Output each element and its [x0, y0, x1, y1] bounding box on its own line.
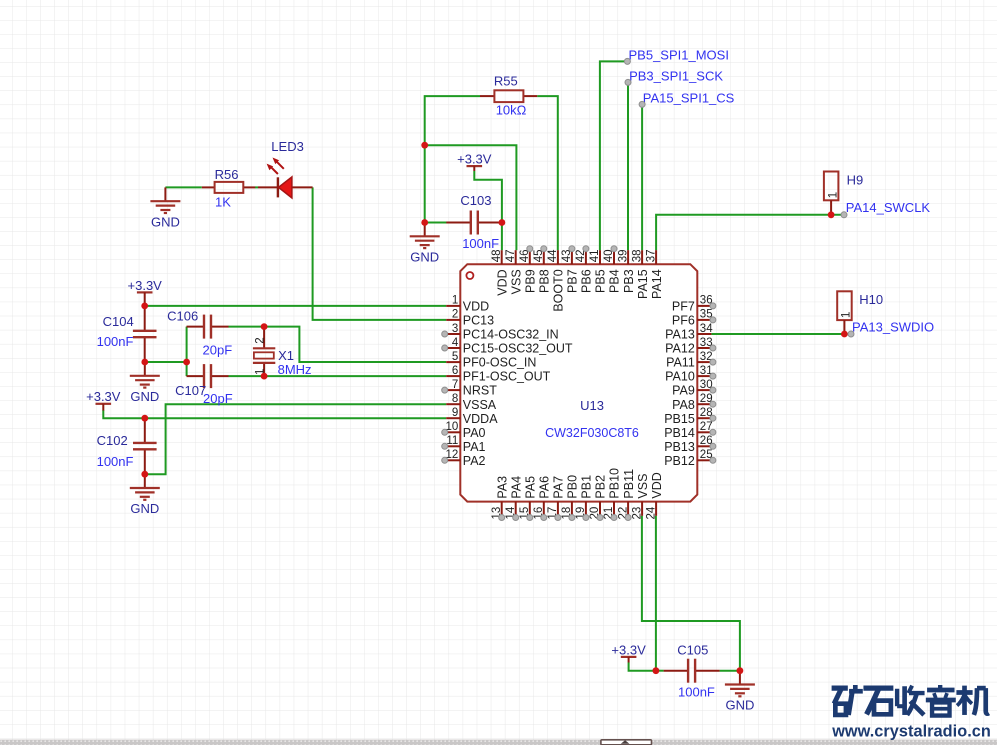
svg-text:PA2: PA2 [463, 454, 486, 468]
svg-text:PB1: PB1 [580, 475, 594, 499]
svg-text:3: 3 [452, 323, 458, 335]
wire +3.3V to pin 1 VDD [145, 305, 447, 307]
U13 pin 38 PA15 [631, 250, 650, 299]
svg-text:1: 1 [452, 295, 458, 307]
svg-text:GND: GND [130, 501, 159, 516]
wire C106/C107 left column [186, 327, 188, 377]
svg-text:PB9: PB9 [524, 269, 538, 293]
ground (R56) [150, 187, 180, 229]
U13 pin 4 PC15-OSC32_OUT [446, 337, 573, 356]
net label anchor [625, 79, 631, 85]
U13 pin 14 PA4 [505, 476, 524, 520]
U13 pin 29 PA8 [672, 393, 713, 412]
svg-text:C107: C107 [175, 383, 206, 398]
svg-text:+3.3V: +3.3V [611, 642, 646, 657]
ground (C102) [130, 474, 160, 516]
junction [141, 415, 148, 422]
svg-text:GND: GND [151, 214, 180, 229]
junction [828, 211, 835, 218]
svg-text:H10: H10 [859, 292, 883, 307]
wire GND junction to C103 [425, 222, 447, 224]
net label anchor [639, 101, 645, 107]
wire +3.3V to C103/pin 48 VDD [474, 171, 502, 250]
svg-text:PA1: PA1 [463, 440, 486, 454]
svg-text:PA4: PA4 [509, 476, 523, 499]
U13 pin 18 PB0 [561, 475, 580, 520]
U13 pin 32 PA11 [666, 351, 713, 370]
U13 pin 2 PC13 [446, 309, 494, 328]
U13 pin 6 PF1-OSC_OUT [446, 365, 550, 384]
wire GND column to pin 47 VSS [425, 145, 517, 250]
svg-text:+3.3V: +3.3V [128, 278, 163, 293]
svg-text:C102: C102 [97, 433, 128, 448]
svg-text:GND: GND [410, 250, 439, 265]
svg-text:9: 9 [452, 407, 458, 419]
U13 pin 23 VSS [631, 474, 650, 520]
svg-text:PB3: PB3 [622, 269, 636, 293]
U13 pin 48 VDD [491, 250, 510, 296]
svg-text:1: 1 [827, 192, 839, 198]
U13 pin 7 NRST [446, 379, 497, 398]
watermark logo text (CJK) [832, 685, 989, 716]
svg-text:C103: C103 [460, 193, 491, 208]
wire +3.3V to C105 node [629, 663, 656, 671]
junction [499, 219, 506, 226]
svg-text:2: 2 [452, 309, 458, 321]
svg-text:NRST: NRST [463, 384, 497, 398]
power +3.3V (VDDA) [86, 389, 121, 410]
svg-text:VDD: VDD [650, 472, 664, 498]
svg-text:41: 41 [589, 250, 601, 263]
svg-text:4: 4 [452, 337, 459, 349]
U13 pin 31 PA10 [665, 365, 712, 384]
svg-text:PA13: PA13 [665, 328, 695, 342]
svg-text:PC14-OSC32_IN: PC14-OSC32_IN [463, 328, 559, 342]
svg-text:PB5: PB5 [594, 269, 608, 293]
svg-text:PB2: PB2 [594, 475, 608, 499]
svg-text:PA15_SPI1_CS: PA15_SPI1_CS [643, 91, 735, 106]
status/scroll strip [0, 740, 997, 745]
U13 pin 1 VDD [446, 295, 489, 314]
U13 pin 45 PB8 [533, 250, 552, 293]
wire junction to C105 left [656, 670, 664, 672]
wire pin 24 VDD down to C105 [655, 516, 657, 671]
svg-text:PA14: PA14 [650, 269, 664, 299]
svg-text:37: 37 [645, 250, 657, 263]
U13 pin 13 PA3 [491, 476, 510, 520]
svg-text:PA7: PA7 [552, 476, 566, 499]
svg-text:PA6: PA6 [538, 476, 552, 499]
capacitor C102 [97, 418, 157, 474]
U13 pin 17 PA7 [547, 476, 566, 520]
resistor R56 [202, 167, 255, 209]
svg-text:8MHz: 8MHz [278, 362, 312, 377]
svg-text:23: 23 [631, 507, 643, 520]
svg-text:PB12: PB12 [664, 454, 695, 468]
svg-text:PA13_SWDIO: PA13_SWDIO [852, 319, 934, 334]
wire pin 39 PB3 to net label [627, 82, 629, 250]
wire pin 37 PA14 to H9 [656, 215, 844, 250]
net label anchor [841, 212, 847, 218]
wire C107/X1 bottom to pin 6 PF1-OSC_OUT [228, 375, 446, 377]
svg-text:VDD: VDD [463, 300, 489, 314]
junction [141, 303, 148, 310]
U13 pin 41 PB5 [589, 250, 608, 293]
U13 pin 39 PB3 [617, 250, 636, 293]
svg-text:VSSA: VSSA [463, 398, 497, 412]
svg-text:C104: C104 [103, 314, 134, 329]
svg-text:C105: C105 [677, 642, 708, 657]
svg-text:6: 6 [452, 365, 458, 377]
svg-text:47: 47 [505, 250, 517, 263]
scrollbar handle [601, 740, 652, 745]
U13 pin 16 PA6 [533, 476, 552, 520]
U13 pin 22 PB11 [617, 469, 636, 520]
U13 pin 34 PA13 [665, 323, 713, 342]
svg-text:PA9: PA9 [672, 384, 695, 398]
U13 pin 9 VDDA [446, 407, 498, 426]
svg-text:20pF: 20pF [203, 391, 233, 406]
connector H9 [824, 172, 863, 215]
U13 pin 20 PB2 [589, 475, 608, 520]
capacitor C107 [175, 364, 233, 406]
junction [141, 359, 148, 366]
svg-text:5: 5 [452, 351, 458, 363]
svg-text:PA11: PA11 [666, 356, 695, 370]
U13 pin 11 PA1 [446, 435, 485, 454]
capacitor C106 [167, 309, 232, 358]
svg-text:PA0: PA0 [463, 426, 486, 440]
junction [183, 359, 190, 366]
svg-text:PB6: PB6 [580, 269, 594, 293]
svg-text:PA12: PA12 [665, 342, 695, 356]
U13 pin 19 PB1 [575, 475, 594, 520]
svg-text:R56: R56 [215, 167, 239, 182]
svg-text:10kΩ: 10kΩ [496, 102, 527, 117]
svg-text:PA3: PA3 [495, 476, 509, 499]
junction [653, 667, 660, 674]
wire +3.3V to pin 9 VDDA [103, 410, 446, 418]
U13 pin 27 PB14 [664, 421, 712, 440]
svg-text:PF7: PF7 [672, 300, 695, 314]
U13 pin 15 PA5 [519, 476, 538, 520]
U13 pin 21 PB10 [603, 468, 622, 520]
power +3.3V (C105) [611, 642, 646, 662]
wire C106 to X1 top [228, 326, 264, 328]
svg-text:100nF: 100nF [462, 236, 499, 251]
ground (C105) [725, 671, 755, 713]
U13 pin 26 PB13 [664, 435, 712, 454]
wire R55 left to GND column [425, 96, 480, 222]
svg-text:BOOT0: BOOT0 [552, 269, 566, 311]
svg-text:PB8: PB8 [538, 269, 552, 293]
svg-text:GND: GND [725, 698, 754, 713]
wire C105 right to GND junction [720, 670, 740, 672]
svg-text:VSS: VSS [636, 474, 650, 499]
power +3.3V (C104) [128, 278, 163, 306]
svg-text:39: 39 [617, 250, 629, 263]
svg-text:PF6: PF6 [672, 314, 695, 328]
svg-text:VDDA: VDDA [463, 412, 498, 426]
junction [261, 323, 268, 330]
svg-text:PB11: PB11 [622, 469, 636, 499]
ground (C103) [410, 223, 440, 265]
svg-text:C106: C106 [167, 309, 198, 324]
wire R55 right to pin 44 BOOT0 [537, 96, 558, 250]
wire GND to R56 [165, 186, 201, 188]
svg-text:100nF: 100nF [97, 454, 134, 469]
U13 pin 12 PA2 [446, 449, 486, 468]
connector H10 [837, 291, 883, 334]
U13 pin 28 PB15 [664, 407, 712, 426]
svg-text:7: 7 [452, 379, 458, 391]
svg-text:20pF: 20pF [203, 343, 233, 358]
svg-text:PB7: PB7 [566, 269, 580, 293]
U13 pin 47 VSS [505, 250, 524, 295]
svg-text:PA10: PA10 [665, 370, 695, 384]
wire pin 41 PB5 to net label [600, 61, 628, 250]
junction [141, 471, 148, 478]
resistor R55 [480, 74, 537, 118]
svg-text:48: 48 [491, 250, 503, 263]
svg-text:PA5: PA5 [524, 476, 538, 499]
U13 pin 44 BOOT0 [547, 249, 566, 312]
wire C102/GND to pin 8 VSSA [145, 404, 446, 474]
svg-text:X1: X1 [278, 348, 294, 363]
svg-text:+3.3V: +3.3V [457, 152, 492, 167]
svg-text:PB15: PB15 [664, 412, 695, 426]
svg-text:PB14: PB14 [664, 426, 695, 440]
svg-text:PF1-OSC_OUT: PF1-OSC_OUT [463, 370, 551, 384]
U13 pin 40 PB4 [603, 250, 622, 293]
svg-text:11: 11 [446, 435, 458, 447]
U13 pin 42 PB6 [575, 250, 594, 293]
wire pin 23 VSS to GND [642, 516, 740, 671]
svg-text:PA15: PA15 [636, 269, 650, 299]
svg-text:PB10: PB10 [608, 468, 622, 499]
junction [421, 142, 428, 149]
junction [841, 331, 848, 338]
svg-text:100nF: 100nF [678, 684, 715, 699]
svg-text:VSS: VSS [509, 269, 523, 294]
junction [261, 373, 268, 380]
svg-text:PA14_SWCLK: PA14_SWCLK [846, 200, 931, 215]
svg-text:+3.3V: +3.3V [86, 389, 121, 404]
U13 pin 8 VSSA [446, 393, 497, 412]
svg-text:1K: 1K [215, 194, 231, 209]
svg-text:34: 34 [700, 323, 713, 335]
unconnected pin markers U13 [442, 246, 716, 521]
U13 pin 30 PA9 [672, 379, 713, 398]
svg-text:PA8: PA8 [672, 398, 695, 412]
svg-text:PB4: PB4 [608, 269, 622, 293]
U13 pin 46 PB9 [519, 250, 538, 293]
wire X1 pin2 to pin 5 PF0-OSC_IN [264, 327, 446, 362]
LED LED3 [258, 139, 313, 198]
net label anchor [848, 331, 854, 337]
svg-text:VDD: VDD [495, 269, 509, 295]
svg-text:H9: H9 [847, 172, 864, 187]
capacitor C104 [97, 306, 157, 362]
svg-text:38: 38 [631, 250, 643, 263]
U13 pin 10 PA0 [446, 421, 486, 440]
svg-text:44: 44 [547, 249, 559, 262]
U13 pin 24 VDD [645, 472, 664, 519]
svg-text:PB13: PB13 [664, 440, 695, 454]
svg-text:PB0: PB0 [566, 475, 580, 499]
capacitor C105 [664, 642, 720, 699]
svg-text:CW32F030C8T6: CW32F030C8T6 [545, 426, 639, 440]
U13 pin 5 PF0-OSC_IN [446, 351, 536, 370]
U13 pin 3 PC14-OSC32_IN [446, 323, 558, 342]
IC U13 CW32F030C8T6 [446, 249, 714, 520]
svg-text:GND: GND [130, 389, 159, 404]
wire R56 to LED3 [255, 186, 258, 188]
crystal X1 [253, 327, 312, 378]
capacitor C103 [446, 193, 502, 251]
svg-text:PB3_SPI1_SCK: PB3_SPI1_SCK [629, 69, 723, 84]
wire LED3 anode to pin 2 PC13 [313, 187, 447, 320]
svg-text:PB5_SPI1_MOSI: PB5_SPI1_MOSI [629, 48, 729, 63]
U13 pin 43 PB7 [561, 250, 580, 293]
svg-text:R55: R55 [494, 74, 518, 89]
svg-text:www.crystalradio.cn: www.crystalradio.cn [831, 722, 991, 740]
U13 pin 37 PA14 [645, 250, 664, 299]
svg-text:100nF: 100nF [97, 334, 134, 349]
wire pin 34 PA13 to H10 [711, 333, 851, 335]
U13 pin 25 PB12 [664, 449, 712, 468]
U13 pin 33 PA12 [665, 337, 712, 356]
svg-text:U13: U13 [580, 398, 604, 413]
svg-text:24: 24 [645, 506, 657, 519]
svg-text:8: 8 [452, 393, 458, 405]
net label anchor [624, 58, 630, 64]
power +3.3V (C103) [457, 152, 492, 172]
svg-text:PC13: PC13 [463, 314, 494, 328]
junction [421, 219, 428, 226]
U13 pin 36 PF7 [672, 295, 713, 314]
svg-text:PC15-OSC32_OUT: PC15-OSC32_OUT [463, 342, 573, 356]
junction [737, 667, 744, 674]
svg-text:LED3: LED3 [271, 139, 304, 154]
ground (C104) [130, 362, 160, 404]
wire C104 bottom to C106/C107 ground column [145, 361, 187, 363]
svg-text:1: 1 [841, 312, 853, 318]
wire pin 38 PA15 to net label [641, 104, 643, 250]
svg-text:PF0-OSC_IN: PF0-OSC_IN [463, 356, 537, 370]
svg-text:2: 2 [254, 337, 266, 343]
U13 pin 35 PF6 [672, 309, 713, 328]
